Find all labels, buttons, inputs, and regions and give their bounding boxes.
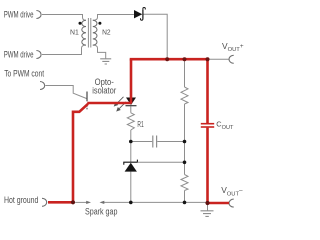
svg-text:isolator: isolator — [92, 85, 116, 95]
svg-text:VOUT+: VOUT+ — [222, 41, 244, 53]
svg-text:Hot ground: Hot ground — [4, 195, 38, 205]
svg-text:VOUT–: VOUT– — [221, 185, 243, 197]
svg-text:Spark gap: Spark gap — [85, 206, 117, 216]
svg-text:N1: N1 — [70, 27, 79, 36]
svg-text:N2: N2 — [102, 27, 111, 36]
svg-text:To PWM cont: To PWM cont — [4, 69, 44, 79]
svg-text:PWM drive: PWM drive — [4, 49, 34, 59]
svg-text:COUT: COUT — [216, 120, 234, 131]
svg-text:PWM drive: PWM drive — [4, 10, 34, 20]
svg-text:R1: R1 — [137, 120, 144, 129]
